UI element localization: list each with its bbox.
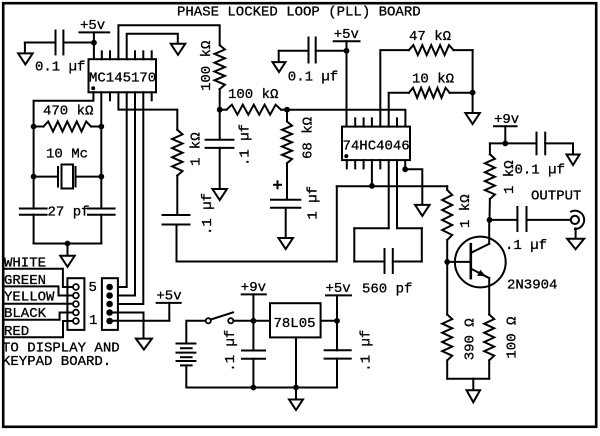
ground (output jack)	[567, 239, 584, 250]
wire (ground rail)	[186, 365, 337, 387]
capacitor 1 µf (polarized)	[271, 181, 322, 219]
wire (emitter)	[488, 278, 490, 314]
wire	[472, 93, 474, 113]
node junction (rail/input cap)	[251, 385, 257, 391]
node junction (loop filter B)	[284, 107, 290, 113]
node junction (+5v / 74HC4046)	[344, 48, 350, 54]
ground (header pin 2)	[136, 339, 152, 350]
resistor 100 kΩ (horizontal)	[220, 87, 287, 115]
node junction (loop filter A)	[217, 107, 223, 113]
wire	[447, 378, 489, 380]
title PHASE LOCKED LOOP (PLL) BOARD	[177, 5, 421, 21]
node junction (74HC4046 gnd pin)	[402, 166, 408, 172]
svg-text:1 kΩ: 1 kΩ	[189, 132, 205, 166]
wire	[93, 43, 95, 60]
svg-text:5: 5	[89, 280, 97, 296]
wire	[472, 50, 474, 93]
wire (74HC4046 pin to ground)	[405, 160, 422, 205]
capacitor 0.1 µf (top-left bypass)	[35, 31, 85, 76]
svg-text:OUTPUT: OUTPUT	[531, 189, 581, 205]
wire	[285, 208, 287, 238]
node junction (base node)	[444, 259, 450, 265]
resistor 100 kΩ (vertical)	[199, 41, 225, 91]
node junction (470 kΩ right)	[98, 124, 104, 130]
svg-text:10 kΩ: 10 kΩ	[412, 71, 454, 87]
wire	[346, 51, 348, 127]
svg-text:68 kΩ: 68 kΩ	[301, 117, 317, 159]
wire	[286, 163, 288, 199]
wire (MC145170 pin to connector bus 3)	[113, 92, 144, 304]
capacitor 560 pf	[354, 228, 422, 297]
capacitor 0.1 µf (output stage bypass)	[515, 133, 565, 179]
node junction (crystal left)	[31, 174, 37, 180]
ground (top-left bypass cap)	[18, 43, 33, 65]
ground (27 pf)	[60, 256, 75, 267]
svg-text:2N3904: 2N3904	[507, 278, 557, 294]
wire	[100, 177, 102, 209]
wire (collector)	[488, 220, 490, 244]
ground (emitter resistors)	[467, 390, 481, 402]
svg-text:YELLOW: YELLOW	[4, 290, 55, 306]
node junction (+5v regulator output)	[334, 318, 340, 324]
wire (MC145170 pin to oscillator)	[34, 92, 94, 126]
node junction (+5v / MC145170 pin)	[91, 40, 97, 46]
power +5V (regulator output)	[326, 281, 352, 321]
wire (78L05 ground pin)	[295, 337, 297, 387]
ground (74HC4046)	[415, 205, 430, 216]
svg-text:.1 µf: .1 µf	[238, 124, 254, 166]
svg-text:560 pf: 560 pf	[362, 282, 412, 298]
svg-text:100 Ω: 100 Ω	[505, 317, 521, 359]
wire	[67, 244, 69, 256]
svg-text:.1 µf: .1 µf	[200, 193, 216, 235]
connector J1 OUTPUT jack	[531, 189, 584, 239]
IC U2 74HC4046 PLL	[342, 118, 410, 168]
node BLACK wire	[3, 306, 73, 322]
pin label 5	[89, 280, 97, 296]
wire	[527, 219, 571, 221]
svg-text:74HC4046: 74HC4046	[343, 139, 410, 155]
svg-text:PHASE LOCKED LOOP (PLL) BOARD: PHASE LOCKED LOOP (PLL) BOARD	[177, 5, 421, 21]
wire (header pin 1 to +5v)	[113, 320, 170, 322]
note TO DISPLAY AND KEYPAD BOARD.	[2, 341, 120, 371]
node junction (470 kΩ left)	[31, 124, 37, 130]
wire	[295, 388, 297, 400]
power +5V (top-left)	[80, 18, 110, 42]
svg-text:78L05: 78L05	[274, 316, 316, 332]
wire	[279, 50, 309, 52]
wire (MC145170 pin down right side of oscillator)	[100, 92, 102, 176]
wire	[446, 262, 448, 315]
crystal Y1 10 Mc	[34, 147, 102, 189]
node GREEN wire	[3, 273, 73, 296]
resistor 1 kΩ (collector)	[485, 143, 518, 220]
svg-text:1 kΩ: 1 kΩ	[458, 194, 474, 228]
ground (power supply)	[289, 400, 303, 411]
svg-text:KEYPAD BOARD.: KEYPAD BOARD.	[2, 354, 111, 370]
svg-text:1 µf: 1 µf	[306, 186, 322, 220]
node junction (+9v switch node)	[251, 318, 257, 324]
resistor 1 kΩ (base)	[442, 186, 474, 262]
resistor 68 kΩ	[282, 110, 317, 164]
wire (VCO out to coupling cap)	[177, 186, 337, 261]
wire (loop filter to 74HC4046)	[287, 110, 405, 127]
capacitor .1 µf (loop filter)	[206, 110, 254, 189]
resistor 1 kΩ (coupling)	[172, 130, 204, 176]
svg-text:27 pf: 27 pf	[48, 205, 90, 221]
node junction (rail/regulator gnd)	[293, 385, 299, 391]
svg-text:BLACK: BLACK	[4, 306, 47, 322]
svg-text:470 kΩ: 470 kΩ	[43, 104, 93, 120]
wire (74HC4046 pin to VCO node)	[371, 160, 373, 186]
wire (header pin 2 to ground)	[113, 313, 144, 339]
wire (MC145170 pin to 1 kΩ coupling)	[118, 92, 177, 130]
connector CON2 (board header, pins 1-5)	[102, 278, 118, 330]
node junction (47k/10k)	[470, 90, 476, 96]
svg-text:100 kΩ: 100 kΩ	[228, 87, 278, 103]
wire	[545, 143, 573, 154]
wire	[63, 42, 94, 44]
node RED wire	[3, 321, 73, 340]
svg-text:0.1 µf: 0.1 µf	[35, 60, 85, 76]
wire (MC145170 pin to 100 kΩ)	[118, 25, 219, 59]
power +5V (74HC4046)	[334, 27, 360, 51]
svg-text:.1 µf: .1 µf	[223, 330, 239, 372]
svg-text:.1 µf: .1 µf	[505, 238, 547, 254]
node junction (+9v rail)	[502, 141, 508, 147]
ground (loop filter cap)	[212, 189, 227, 200]
resistor 470 kΩ	[34, 104, 102, 132]
node junction (VCO out)	[369, 183, 375, 189]
resistor 390 Ω	[442, 315, 479, 379]
wire	[34, 215, 102, 244]
wire	[33, 127, 35, 209]
ground (1 µf cap)	[278, 238, 293, 249]
wire (+9v rail)	[490, 142, 537, 144]
svg-text:WHITE: WHITE	[4, 256, 46, 272]
wire (MC145170 pin to connector bus 2)	[113, 92, 135, 295]
node junction (27 pf common)	[65, 241, 71, 247]
wire	[233, 320, 270, 322]
svg-text:.1 µf: .1 µf	[359, 330, 375, 372]
capacitor .1 µf (9v input filter)	[223, 321, 265, 388]
wire	[25, 42, 56, 44]
power +5V (header)	[156, 289, 181, 321]
ground (near MC145170 top)	[171, 44, 186, 55]
ground (mid bypass cap)	[273, 51, 286, 72]
capacitor 27 pf (left)	[20, 205, 90, 221]
battery B1 9V	[177, 344, 196, 366]
wire	[472, 379, 474, 391]
capacitor 27 pf (right)	[88, 209, 115, 215]
voltage regulator U3 78L05	[270, 303, 321, 337]
power +9V (battery)	[241, 280, 266, 321]
wire	[186, 321, 206, 344]
wire (MC145170 pin to ground)	[127, 34, 178, 60]
capacitor .1 µf (coupling)	[163, 176, 217, 235]
svg-text:100 kΩ: 100 kΩ	[199, 41, 215, 91]
ground (47k/10k)	[465, 113, 480, 124]
node junction (collector node)	[487, 217, 493, 223]
resistor 47 kΩ	[380, 29, 472, 127]
wire	[219, 89, 221, 110]
capacitor .1 µf (output coupling)	[505, 207, 547, 254]
switch S1 power	[206, 312, 234, 323]
resistor 10 kΩ	[389, 71, 473, 126]
wire	[316, 50, 347, 52]
node YELLOW wire	[3, 290, 73, 306]
capacitor .1 µf (5v output filter)	[325, 321, 375, 388]
wire (VCO output rail)	[337, 185, 447, 187]
pin label 1	[89, 313, 97, 329]
svg-text:47 kΩ: 47 kΩ	[409, 29, 451, 45]
svg-text:10 Mc: 10 Mc	[46, 147, 88, 163]
transistor Q1 2N3904	[447, 237, 557, 294]
svg-text:GREEN: GREEN	[4, 273, 46, 289]
wire	[321, 320, 337, 322]
node WHITE wire	[3, 256, 73, 288]
svg-text:1: 1	[89, 313, 97, 329]
node junction (crystal right)	[98, 174, 104, 180]
wire (74HC4046 pins to 560 pf)	[389, 160, 397, 228]
resistor 100 Ω	[484, 315, 520, 379]
capacitor 0.1 µf (74HC4046 bypass)	[288, 38, 338, 86]
svg-text:390 Ω: 390 Ω	[463, 318, 479, 360]
IC U1 MC145170 PLL frequency synthesizer	[89, 51, 157, 100]
power +9V (output stage)	[494, 112, 519, 143]
ground (+9v bypass)	[567, 155, 580, 166]
wire	[490, 219, 518, 221]
svg-text:0.1 µf: 0.1 µf	[515, 162, 565, 178]
wire (MC145170 pin to connector bus 1)	[113, 92, 127, 287]
connector CON1 (to display, pins 1-5)	[67, 278, 84, 330]
svg-text:RED: RED	[4, 324, 29, 340]
svg-text:0.1 µf: 0.1 µf	[288, 70, 338, 86]
svg-text:MC145170: MC145170	[89, 71, 156, 87]
